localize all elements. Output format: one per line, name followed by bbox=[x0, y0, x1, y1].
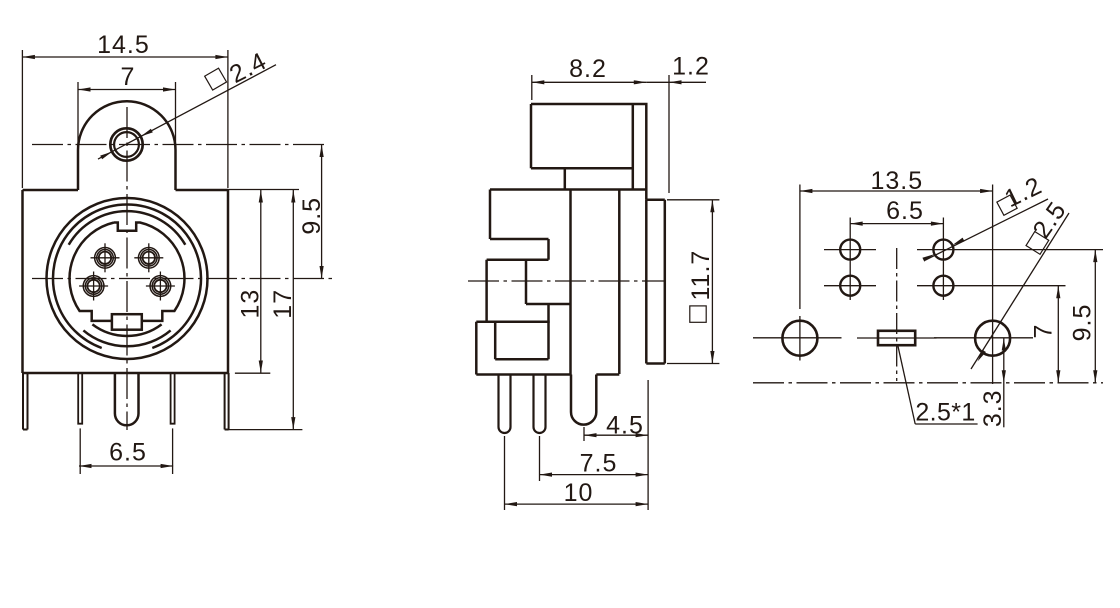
svg-text:1.2: 1.2 bbox=[672, 53, 710, 81]
side view top housing bbox=[531, 104, 646, 200]
shield hole left crosshair bbox=[753, 316, 842, 361]
ear hole outer circle bbox=[110, 128, 142, 160]
extension line left bbox=[799, 185, 801, 310]
dimension 6.5 footprint bbox=[850, 197, 943, 226]
dimension 13 bbox=[228, 190, 299, 374]
dimension 17 bbox=[225, 190, 302, 430]
dimension 7 footprint bbox=[1030, 286, 1061, 383]
footprint shield hole left bbox=[782, 321, 817, 356]
pin 2 socket bbox=[79, 272, 108, 301]
leader square 2.5 bbox=[971, 196, 1072, 369]
side view rear wall bbox=[618, 190, 621, 375]
shield outer circle bbox=[47, 198, 208, 359]
insert arc top bbox=[69, 211, 186, 245]
svg-text:7.5: 7.5 bbox=[580, 450, 618, 478]
footprint column centerline right bbox=[942, 218, 944, 301]
footprint hole pin 3 bbox=[933, 240, 953, 260]
dimension 9.5 front view bbox=[298, 145, 326, 279]
footprint hole pin 2 bbox=[840, 276, 860, 296]
dimension 6.5 front view bbox=[79, 428, 173, 474]
svg-text:9.5: 9.5 bbox=[1069, 304, 1097, 342]
slot row ticks bbox=[857, 337, 937, 339]
dimension 8.2 bbox=[532, 55, 647, 100]
dimension 10 bbox=[505, 436, 649, 510]
footprint row2 tick left bbox=[824, 285, 876, 287]
svg-text:4.5: 4.5 bbox=[606, 412, 644, 440]
svg-text:11.7: 11.7 bbox=[687, 250, 715, 301]
svg-text:8.2: 8.2 bbox=[569, 55, 607, 83]
side view pin 1 bbox=[499, 375, 511, 434]
pin 3 socket bbox=[134, 243, 163, 272]
front view lead pin right bbox=[171, 373, 175, 424]
svg-text:3.3: 3.3 bbox=[979, 389, 1007, 427]
svg-text:17: 17 bbox=[269, 289, 297, 319]
shield opening bottom arc bbox=[92, 324, 161, 336]
dimension 3.3 bbox=[979, 338, 1007, 427]
svg-text:14.5: 14.5 bbox=[97, 31, 150, 59]
side view shield pin bbox=[571, 375, 596, 425]
shield opening with key notch bbox=[70, 223, 185, 321]
footprint shield hole right bbox=[975, 321, 1010, 356]
leader square 1.2 bbox=[922, 171, 1048, 261]
ear hole inner circle bbox=[114, 132, 139, 157]
footprint center column centerline bbox=[896, 248, 898, 381]
dimension 7.5 bbox=[540, 436, 649, 481]
svg-text:6.5: 6.5 bbox=[886, 197, 924, 225]
footprint row1 tick left bbox=[824, 249, 876, 251]
front view center shield pin bbox=[115, 373, 139, 425]
svg-text:10: 10 bbox=[564, 479, 594, 507]
footprint main centerline bbox=[753, 382, 1103, 384]
footprint hole pin 1 bbox=[933, 276, 953, 296]
footprint slot 2.5x1 bbox=[878, 331, 915, 345]
pin 4 socket bbox=[91, 243, 120, 272]
side view body top edge bbox=[490, 188, 646, 191]
svg-text:7: 7 bbox=[1030, 324, 1058, 339]
footprint column centerline left bbox=[849, 218, 851, 301]
vertical centerline front view bbox=[126, 107, 128, 430]
shield rim circle bbox=[53, 204, 201, 348]
latch window bbox=[112, 314, 142, 330]
footprint row2 tick right bbox=[917, 285, 1066, 287]
footprint row1 tick right bbox=[917, 249, 1103, 251]
right shield leg bbox=[225, 373, 229, 430]
svg-text:2.4: 2.4 bbox=[225, 47, 271, 89]
shield hole right crosshair bbox=[934, 337, 1033, 339]
pin 1 socket bbox=[146, 272, 175, 301]
horizontal centerline ear hole bbox=[32, 144, 328, 146]
side view stepped left profile bbox=[476, 190, 549, 375]
svg-text:1.2: 1.2 bbox=[1000, 171, 1046, 213]
side view internal wall bbox=[569, 190, 572, 375]
svg-text:2.5: 2.5 bbox=[1027, 196, 1072, 243]
side view pin 2 bbox=[534, 375, 546, 434]
leader line 2.4 bbox=[98, 47, 276, 159]
left shield leg bbox=[23, 373, 28, 430]
dimension 13.5 bbox=[800, 167, 993, 195]
dimension 11.7 with square symbol bbox=[667, 200, 719, 364]
side view bottom edge bbox=[476, 373, 619, 376]
side view internal seams bbox=[495, 260, 570, 359]
dimension 7 bbox=[78, 63, 176, 146]
front view lead pin left bbox=[78, 373, 82, 424]
front view mounting ear bbox=[78, 101, 176, 190]
dimension 14.5 bbox=[22, 31, 228, 188]
svg-text:2.5*1: 2.5*1 bbox=[915, 398, 975, 426]
svg-text:13.5: 13.5 bbox=[870, 167, 923, 195]
front view body outline bbox=[23, 190, 229, 373]
side view front flange bbox=[646, 200, 665, 364]
extension line right bbox=[992, 185, 994, 385]
label slot 2.5x1 bbox=[898, 346, 978, 426]
insert arc bottom bbox=[83, 330, 170, 346]
dimension 4.5 bbox=[584, 380, 648, 510]
svg-text:9.5: 9.5 bbox=[298, 197, 326, 235]
svg-text:7: 7 bbox=[121, 63, 136, 91]
dimension 1.2 side view bbox=[646, 53, 710, 194]
svg-text:6.5: 6.5 bbox=[109, 439, 147, 467]
svg-text:13: 13 bbox=[237, 289, 265, 319]
dimension 9.5 footprint bbox=[1069, 250, 1098, 383]
footprint hole pin 4 bbox=[840, 240, 860, 260]
side view centerline bbox=[468, 280, 666, 282]
horizontal centerline connector bbox=[32, 278, 333, 280]
